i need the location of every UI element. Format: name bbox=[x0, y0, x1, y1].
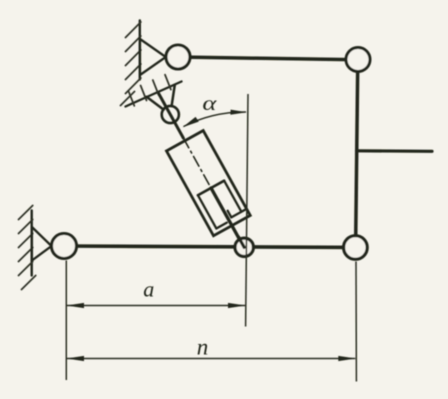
joint circle P4 (bottom-left) bbox=[52, 234, 77, 259]
label alpha bbox=[202, 93, 217, 115]
link: bottom bar P4-P5-P3 bbox=[64, 246, 356, 247]
angle arc for alpha bbox=[184, 112, 247, 127]
cylinder body outer rectangle bbox=[166, 131, 250, 236]
arrowhead: dim a right bbox=[228, 303, 246, 308]
wall hatching (bottom-left) bbox=[19, 206, 36, 290]
svg-text:a: a bbox=[143, 276, 154, 301]
arrowhead: dim a left bbox=[66, 303, 84, 308]
piston crossbar (inner rect top edge) bbox=[198, 181, 224, 196]
link: top coupler P1-P2 bbox=[178, 57, 358, 60]
inner sleeve left side bbox=[198, 195, 216, 228]
vertical reference / extension line through P5 bbox=[246, 94, 248, 327]
sleeve bottom-right bar to cylinder wall bbox=[231, 209, 246, 217]
tilted support base line (cylinder anchor) bbox=[126, 82, 182, 107]
hydraulic cylinder group (rotated about pivot P6) bbox=[140, 83, 257, 249]
sleeve bottom-left bar bbox=[216, 223, 226, 229]
joint circle P5 (rod to bottom bar) bbox=[235, 238, 253, 256]
extension line below P3 bbox=[355, 262, 357, 382]
fixed support wall (bottom-left) bbox=[31, 211, 33, 276]
pivot triangle (top-left support) bbox=[140, 39, 166, 75]
svg-text:α: α bbox=[202, 93, 217, 115]
svg-text:n: n bbox=[197, 335, 209, 360]
dimension line a bbox=[67, 305, 245, 307]
arrowhead: dim n left bbox=[66, 356, 84, 361]
joint circle P1 (top-left) bbox=[166, 45, 190, 69]
rod end inside P5 bbox=[239, 237, 245, 247]
tilted support hatching bbox=[128, 75, 171, 106]
extension line below P4 bbox=[65, 261, 67, 381]
pivot triangle (tilted support) bbox=[147, 97, 164, 110]
inner sleeve right side bbox=[224, 181, 241, 212]
arrowhead: dim n right bbox=[338, 356, 356, 361]
joint circle P6 (cylinder anchor pivot) bbox=[162, 106, 179, 123]
link: output stub to the right bbox=[357, 149, 433, 153]
joint circle P3 (bottom-right) bbox=[344, 236, 368, 260]
wall hatching (top-left) bbox=[121, 22, 141, 106]
link: right crank P2-P3 bbox=[356, 60, 358, 248]
arrowhead: alpha arc left end bbox=[183, 117, 199, 127]
piston rod upper segment and tail bbox=[159, 94, 184, 139]
thin measurement linework bbox=[66, 94, 356, 382]
arrowhead: alpha arc right end bbox=[230, 110, 246, 115]
sleeve bottom-right inner tick bbox=[228, 211, 232, 218]
dimension line n bbox=[67, 358, 355, 360]
axis dash-dot centerline bbox=[183, 138, 210, 186]
pivot triangle (bottom-left support) bbox=[32, 227, 52, 261]
piston rod lower segment to P5 bbox=[211, 188, 239, 239]
joint circle P2 (top-right) bbox=[346, 48, 370, 72]
fixed support wall (top-left) bbox=[139, 21, 141, 80]
